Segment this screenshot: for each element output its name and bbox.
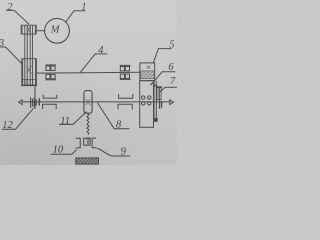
jig bracket right	[92, 138, 96, 148]
svg-text:11: 11	[60, 116, 70, 127]
svg-text:2: 2	[7, 2, 13, 13]
guide staple right	[118, 94, 133, 109]
spindle capsule 11	[84, 91, 92, 114]
callout 5	[153, 49, 171, 63]
collar right pair	[160, 100, 162, 109]
svg-text:3: 3	[0, 38, 4, 49]
spindle housing comb	[22, 80, 37, 86]
callout 9	[97, 148, 131, 156]
bearing right	[120, 65, 131, 79]
screw end left	[19, 100, 23, 105]
feed vertical wire	[34, 86, 36, 109]
callout 8	[97, 103, 129, 129]
callout 3	[0, 47, 22, 64]
svg-text:6: 6	[168, 62, 174, 73]
motor shaft wire	[37, 30, 45, 32]
callout 2	[6, 10, 29, 24]
pulley bottom	[22, 59, 37, 87]
column plate with bolts	[140, 81, 154, 128]
gear box 5	[140, 63, 155, 81]
callout 1	[66, 11, 85, 22]
svg-text:4: 4	[98, 45, 104, 56]
belt lines	[25, 25, 33, 84]
svg-text:9: 9	[121, 146, 127, 157]
callout 12	[2, 108, 34, 129]
callout 11	[59, 112, 87, 125]
svg-text:5: 5	[169, 40, 174, 51]
bearing left	[45, 65, 56, 80]
svg-text:12: 12	[2, 120, 13, 131]
clutch coupling	[31, 97, 37, 107]
callout 7	[159, 87, 177, 92]
svg-text:8: 8	[116, 119, 122, 130]
guide strip	[154, 81, 158, 122]
callout 4	[80, 54, 107, 73]
drill bit	[87, 113, 89, 135]
collar left	[38, 98, 40, 105]
jig bracket left	[76, 138, 80, 148]
jig square	[84, 138, 90, 145]
spring rack 7	[156, 86, 162, 99]
upper shaft wire	[37, 71, 140, 74]
motor M circle	[45, 18, 70, 43]
callout 10	[51, 150, 77, 155]
lower shaft wire	[22, 101, 170, 103]
svg-text:10: 10	[53, 144, 64, 155]
svg-text:7: 7	[170, 76, 176, 87]
pulley top	[21, 25, 37, 34]
svg-text:1: 1	[81, 2, 86, 13]
svg-text:M: M	[50, 24, 61, 35]
guide staple left	[43, 95, 57, 109]
callout 6	[150, 72, 175, 86]
crank end right	[170, 100, 174, 105]
workpiece bar	[76, 158, 99, 164]
drill tip	[87, 139, 89, 145]
